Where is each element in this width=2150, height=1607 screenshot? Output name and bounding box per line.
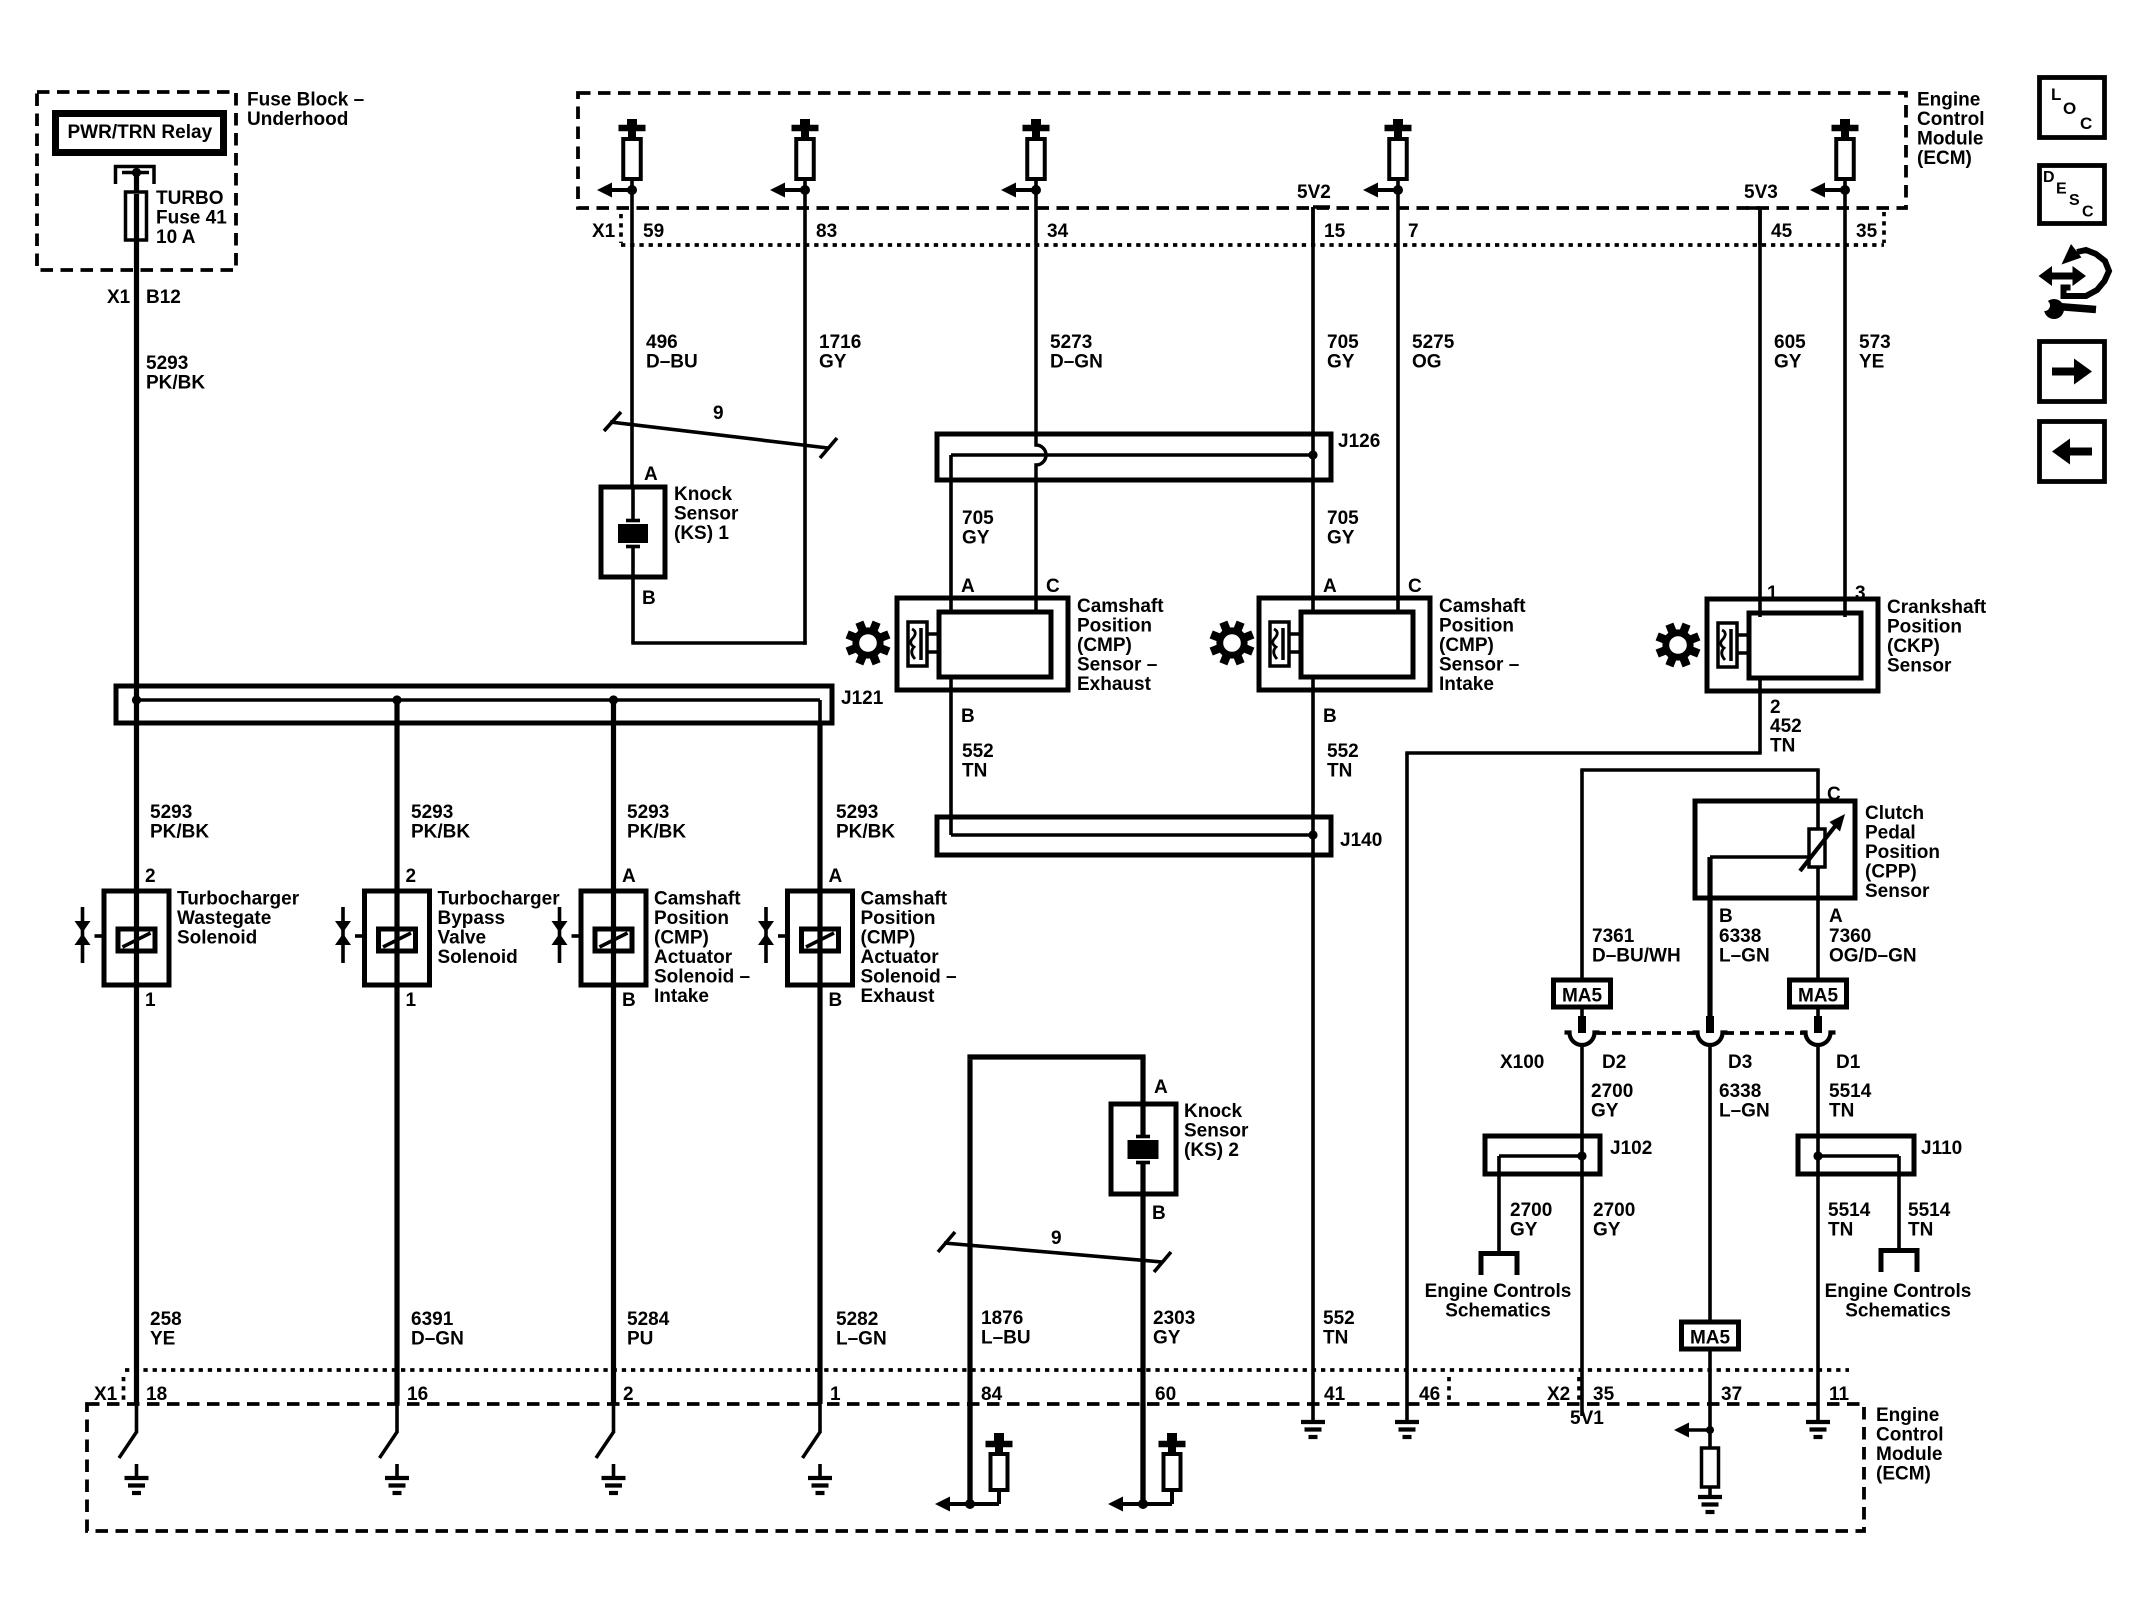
svg-text:Position: Position [1887, 617, 1962, 638]
J110 junction dot [1813, 1151, 1822, 1160]
svg-text:5273: 5273 [1050, 332, 1092, 353]
svg-text:18: 18 [146, 1384, 167, 1405]
wire label 5273 D–GN [1050, 332, 1103, 373]
CMP actuator solenoid exhaust pin A label [829, 866, 843, 887]
svg-text:3: 3 [1855, 583, 1866, 604]
svg-text:PU: PU [627, 1329, 653, 1350]
KS1 pin B label [642, 588, 656, 609]
svg-text:2: 2 [1770, 697, 1781, 718]
wire label 705 GY [1327, 332, 1359, 373]
CMP exhaust pin C label [1046, 576, 1060, 597]
pin number 15 top [1324, 221, 1346, 242]
svg-text:B: B [1152, 1203, 1166, 1224]
X2 label bottom [1547, 1384, 1570, 1405]
svg-text:YE: YE [1859, 352, 1884, 373]
svg-text:Bypass: Bypass [438, 908, 506, 929]
svg-text:Intake: Intake [1439, 674, 1494, 695]
shield symbol 9 at KS2 [938, 1232, 1171, 1272]
svg-text:X1: X1 [94, 1384, 118, 1405]
ECM internal driver pigtail above pin 83 [770, 119, 819, 245]
svg-text:1: 1 [145, 990, 156, 1011]
connector MA5 (7360) [1790, 980, 1847, 1007]
wire 5273 to CMP exhaust C (hop over J126) [1036, 245, 1046, 612]
label J121 [841, 688, 884, 709]
svg-text:Intake: Intake [654, 986, 709, 1007]
svg-text:Position: Position [654, 908, 729, 929]
svg-text:Solenoid: Solenoid [438, 947, 518, 968]
ECM internal load at pin 37 [1674, 1404, 1722, 1512]
label J140 [1340, 830, 1382, 851]
svg-text:J140: J140 [1340, 830, 1382, 851]
pin number 45 top [1771, 221, 1793, 242]
svg-text:10 A: 10 A [156, 227, 196, 248]
svg-text:D2: D2 [1602, 1052, 1626, 1073]
svg-text:X1: X1 [107, 287, 131, 308]
svg-text:J126: J126 [1338, 431, 1380, 452]
splice pack J102 box [1485, 1136, 1600, 1174]
svg-text:B: B [1719, 906, 1733, 927]
svg-text:2700: 2700 [1591, 1081, 1633, 1102]
svg-text:5275: 5275 [1412, 332, 1455, 353]
pin number 35 top [1856, 221, 1878, 242]
J110 internal bus [1818, 1156, 1899, 1174]
CMP actuator solenoid exhaust [758, 891, 853, 985]
label 6338 L-GN [1719, 926, 1770, 967]
svg-text:(CMP): (CMP) [654, 928, 709, 949]
svg-text:41: 41 [1324, 1384, 1346, 1405]
KS1 pin A label [644, 464, 658, 485]
svg-text:Wastegate: Wastegate [177, 908, 271, 929]
gear icon CMP intake [1211, 622, 1253, 664]
icon box DESC [2040, 166, 2105, 224]
ECM bottom connector dotted line [125, 1368, 1849, 1372]
svg-text:(ECM): (ECM) [1917, 148, 1972, 169]
splice pack J121 box [116, 686, 832, 723]
svg-text:Turbocharger: Turbocharger [438, 889, 561, 910]
svg-text:D–GN: D–GN [411, 1329, 464, 1350]
wire label 5275 OG [1412, 332, 1455, 373]
svg-text:Control: Control [1917, 109, 1985, 130]
svg-text:605: 605 [1774, 332, 1806, 353]
svg-text:6338: 6338 [1719, 926, 1761, 947]
svg-text:B: B [1323, 706, 1337, 727]
label J126 [1338, 431, 1380, 452]
svg-text:J102: J102 [1610, 1138, 1652, 1159]
wire 5275 to CMP intake C [1396, 245, 1400, 612]
label 9 (KS1) [713, 403, 724, 424]
wire 1876 L-BU [967, 1057, 1145, 1504]
svg-text:5293: 5293 [146, 353, 188, 374]
MA5 stub right [1816, 1007, 1820, 1033]
label 705 GY intake [1327, 508, 1359, 549]
CPP C wire 573 branch [1580, 770, 1819, 980]
svg-text:452: 452 [1770, 716, 1802, 737]
svg-text:GY: GY [1510, 1220, 1538, 1241]
svg-text:C: C [2082, 204, 2094, 221]
svg-text:6391: 6391 [411, 1309, 454, 1330]
wire 2700 GY D2 to pin 35 [1580, 1045, 1584, 1416]
clutch pedal position CPP sensor box [1695, 801, 1855, 898]
connector MA5 (7361) [1554, 980, 1611, 1007]
crankshaft position CKP sensor B3 [1707, 599, 1878, 691]
pin number 35 bottom [1593, 1384, 1615, 1405]
svg-text:Sensor: Sensor [1184, 1121, 1249, 1142]
label Camshaft Position (CMP) Sensor - Exhaust [1077, 596, 1164, 695]
svg-text:B12: B12 [146, 287, 181, 308]
X2 separator dots bottom [1577, 1377, 1581, 1402]
svg-text:GY: GY [1327, 528, 1355, 549]
label Fuse Block - Underhood [247, 90, 364, 131]
svg-text:5293: 5293 [836, 802, 878, 823]
wire 605 to CKP 1 [1758, 208, 1762, 617]
CMP actuator solenoid exhaust output wire [817, 985, 822, 1404]
J126 junction dot [1308, 450, 1317, 459]
svg-text:TN: TN [1770, 736, 1795, 757]
svg-text:2700: 2700 [1593, 1200, 1635, 1221]
pin number 83 top [816, 221, 837, 242]
KS2 A wire [1140, 1057, 1145, 1138]
svg-text:GY: GY [819, 352, 847, 373]
J126 internal bus [951, 455, 1313, 480]
svg-text:573: 573 [1859, 332, 1891, 353]
svg-text:TN: TN [1829, 1101, 1854, 1122]
svg-text:Knock: Knock [1184, 1101, 1243, 1122]
wire 573 to CKP 3 [1843, 245, 1847, 617]
svg-text:TN: TN [1327, 761, 1352, 782]
label Clutch Pedal Position (CPP) Sensor [1865, 803, 1940, 902]
svg-text:5V3: 5V3 [1744, 182, 1778, 203]
ECM internal switch and ground at pin 2 [596, 1404, 626, 1493]
svg-text:Sensor: Sensor [1865, 881, 1930, 902]
svg-text:D3: D3 [1728, 1052, 1752, 1073]
wire 6338 D3 to MA5 [1708, 1045, 1712, 1322]
pin number 59 top [643, 221, 664, 242]
CKP pin 2 label [1770, 697, 1781, 718]
svg-text:7: 7 [1408, 221, 1419, 242]
ECM internal driver pigtail above pin 59 [597, 119, 646, 245]
svg-text:Knock: Knock [674, 484, 733, 505]
relay output terminal clip [116, 167, 155, 185]
svg-text:5293: 5293 [150, 802, 192, 823]
label 5293 PK/BK at x=411 [411, 802, 470, 843]
svg-text:A: A [961, 576, 975, 597]
svg-text:Sensor: Sensor [1887, 656, 1952, 677]
svg-text:Engine: Engine [1876, 1405, 1939, 1426]
pin label X1 B12 [107, 287, 181, 308]
label 2700 GY (J102 left) [1510, 1200, 1552, 1241]
svg-text:D–BU/WH: D–BU/WH [1592, 946, 1681, 967]
wire 5514 D1 to pin 11 [1816, 1045, 1820, 1404]
svg-text:TN: TN [962, 761, 987, 782]
ECM top connector dotted line [621, 243, 1884, 247]
svg-text:Fuse Block –: Fuse Block – [247, 90, 364, 111]
CMP actuator solenoid intake [552, 891, 647, 985]
wire 5293 branch to solenoid 3 [611, 700, 616, 893]
svg-text:L–GN: L–GN [1719, 1101, 1770, 1122]
pin number 41 bottom [1324, 1384, 1346, 1405]
CMP actuator solenoid intake output wire [611, 985, 616, 1404]
camshaft position CMP sensor intake B2 [1259, 598, 1430, 690]
svg-text:Sensor: Sensor [674, 504, 739, 525]
turbocharger bypass valve solenoid pin 2 label [406, 866, 417, 887]
ECM internal pigtail at pin 84 [935, 1404, 1013, 1512]
svg-text:5514: 5514 [1908, 1200, 1951, 1221]
svg-text:Position: Position [1077, 616, 1152, 637]
svg-text:5284: 5284 [627, 1309, 670, 1330]
pin number 18 bottom [146, 1384, 167, 1405]
svg-text:7361: 7361 [1592, 926, 1635, 947]
CMP intake pin A label [1323, 576, 1337, 597]
CPP potentiometer [1800, 814, 1845, 871]
wire relay to fuse [134, 173, 139, 195]
pin number 7 top [1408, 221, 1419, 242]
CMP exhaust A wire [949, 480, 953, 612]
CMP intake A wire [1311, 455, 1315, 612]
wire label 496 D–BU [646, 332, 698, 373]
wire label 5284 PU [627, 1309, 670, 1350]
svg-text:GY: GY [1593, 1220, 1621, 1241]
wire label 258 YE [150, 1309, 182, 1350]
label Crankshaft Position (CKP) Sensor [1887, 597, 1987, 677]
ECM internal switch and ground at pin 16 [380, 1404, 410, 1493]
pin number 84 bottom [981, 1384, 1003, 1405]
svg-text:Actuator: Actuator [654, 947, 733, 968]
label Engine Controls Schematics left [1425, 1281, 1572, 1322]
svg-text:2700: 2700 [1510, 1200, 1552, 1221]
wire fuse to X1 B12 [134, 240, 139, 270]
svg-text:Sensor –: Sensor – [1439, 655, 1519, 676]
svg-text:Position: Position [861, 908, 936, 929]
svg-text:O: O [2063, 99, 2076, 118]
label 2303 GY [1153, 1308, 1195, 1349]
label 5514 TN (J110 right) [1908, 1200, 1951, 1241]
svg-text:45: 45 [1771, 221, 1793, 242]
label Camshaft Position (CMP) Actuator Solenoid – Exhaust [861, 889, 957, 1008]
svg-text:C: C [1046, 576, 1060, 597]
pin number 34 top [1047, 221, 1069, 242]
label Engine Control Module (ECM) bottom [1876, 1405, 1944, 1485]
ground at pin 46 [1395, 1404, 1419, 1437]
svg-text:552: 552 [1323, 1308, 1355, 1329]
off-page fork right [1881, 1251, 1917, 1273]
svg-text:Valve: Valve [438, 928, 487, 949]
pin number 46 bottom [1419, 1384, 1440, 1405]
wire 1716 horizontal to KS1 B [631, 641, 806, 645]
label D2 [1602, 1052, 1626, 1073]
svg-text:YE: YE [150, 1329, 175, 1350]
wire 5293 branch to solenoid 4 [817, 723, 822, 893]
svg-text:5293: 5293 [627, 802, 669, 823]
svg-text:552: 552 [1327, 741, 1359, 762]
CPP pin C label [1827, 784, 1841, 805]
X100 dashed connector line [1597, 1031, 1803, 1035]
svg-text:258: 258 [150, 1309, 182, 1330]
wire 496 to KS1 [630, 245, 634, 489]
label 452 TN [1770, 716, 1802, 757]
J140 junction dot [1308, 830, 1317, 839]
gear icon CMP exhaust [847, 622, 889, 664]
svg-text:5282: 5282 [836, 1309, 878, 1330]
svg-text:6338: 6338 [1719, 1081, 1761, 1102]
label Engine Controls Schematics right [1825, 1281, 1972, 1322]
camshaft position CMP sensor exhaust B1 [897, 598, 1068, 690]
KS2 B wire 2303 GY [1140, 1161, 1145, 1504]
svg-text:Module: Module [1876, 1444, 1943, 1465]
svg-text:15: 15 [1324, 221, 1346, 242]
fuse block - underhood dashed box [37, 92, 236, 270]
svg-text:496: 496 [646, 332, 678, 353]
ECM internal driver pigtail above pin 34 [1001, 119, 1050, 245]
svg-text:GY: GY [962, 528, 990, 549]
net label 5V2 [1297, 182, 1331, 203]
KS2 piezo element [1128, 1137, 1159, 1163]
svg-text:1876: 1876 [981, 1308, 1023, 1329]
svg-text:MA5: MA5 [1690, 1328, 1731, 1349]
svg-text:(KS) 2: (KS) 2 [1184, 1140, 1239, 1161]
turbocharger wastegate solenoid [75, 891, 170, 985]
label 5293 PK/BK at x=836 [836, 802, 895, 843]
net 5V2 stub at pin 15 [1313, 207, 1330, 245]
J102 junction dot [1577, 1151, 1586, 1160]
turbocharger bypass valve solenoid [335, 891, 430, 985]
svg-text:X1: X1 [592, 221, 616, 242]
svg-text:59: 59 [643, 221, 664, 242]
label 5514 TN (D1) [1829, 1081, 1872, 1122]
wire 5293 through J121 to solenoid 1 [134, 688, 139, 893]
svg-text:L: L [2051, 85, 2061, 104]
ECM internal switch and ground at pin 1 [803, 1404, 833, 1493]
svg-text:46: 46 [1419, 1384, 1440, 1405]
turbocharger wastegate solenoid pin 1 label [145, 990, 156, 1011]
svg-text:1: 1 [406, 990, 417, 1011]
wire label 605 GY [1774, 332, 1806, 373]
svg-text:Engine: Engine [1917, 90, 1980, 111]
svg-text:Engine Controls: Engine Controls [1425, 1281, 1572, 1302]
ECM top dashed box [578, 93, 1906, 208]
svg-text:(ECM): (ECM) [1876, 1464, 1931, 1485]
svg-text:PK/BK: PK/BK [150, 822, 209, 843]
svg-text:D1: D1 [1836, 1052, 1861, 1073]
wire label 573 YE [1859, 332, 1891, 373]
svg-text:OG/D–GN: OG/D–GN [1829, 946, 1917, 967]
ECM internal switch and ground at pin 18 [119, 1404, 149, 1493]
label Knock Sensor (KS) 2 [1184, 1101, 1249, 1161]
svg-text:OG: OG [1412, 352, 1442, 373]
wire 5293 branch to solenoid 2 [394, 700, 399, 893]
X1 label top [592, 221, 616, 242]
label 7361 D-BU/WH [1592, 926, 1681, 967]
icon box arrow left [2040, 422, 2105, 482]
MA5 connector (6338 bottom) [1682, 1322, 1739, 1349]
gear icon CKP [1657, 624, 1699, 666]
svg-text:(CMP): (CMP) [861, 928, 916, 949]
svg-text:MA5: MA5 [1562, 986, 1603, 1007]
splice pack J110 box [1798, 1136, 1914, 1174]
splice pack J140 box [937, 817, 1331, 855]
CKP pin 3 label [1855, 583, 1866, 604]
svg-text:5V1: 5V1 [1570, 1408, 1604, 1429]
label 5293 PK/BK (feed) [146, 353, 205, 394]
knock sensor KS1 box [601, 487, 665, 577]
label PWR/TRN Relay [68, 122, 213, 143]
svg-text:C: C [2080, 114, 2092, 133]
label Engine Control Module (ECM) top [1917, 90, 1985, 170]
svg-text:2: 2 [406, 866, 417, 887]
svg-text:A: A [622, 866, 636, 887]
ECM internal driver pigtail above pin 7 [1363, 119, 1412, 245]
svg-text:Solenoid –: Solenoid – [861, 967, 957, 988]
label 552 TN (pin41) [1323, 1308, 1355, 1349]
ground at pin 41 [1301, 1404, 1325, 1437]
svg-text:Camshaft: Camshaft [861, 889, 948, 910]
svg-text:Actuator: Actuator [861, 947, 940, 968]
svg-text:5V2: 5V2 [1297, 182, 1331, 203]
svg-text:(KS) 1: (KS) 1 [674, 523, 729, 544]
svg-text:A: A [1323, 576, 1337, 597]
wire 5293 fuse block to J121 [134, 270, 139, 688]
wire label 5282 L–GN [836, 1309, 887, 1350]
svg-text:B: B [961, 706, 975, 727]
svg-text:Exhaust: Exhaust [1077, 674, 1152, 695]
svg-text:Exhaust: Exhaust [861, 986, 936, 1007]
CMP exhaust pin B label [961, 706, 975, 727]
svg-text:Crankshaft: Crankshaft [1887, 597, 1987, 618]
svg-text:Schematics: Schematics [1445, 1301, 1551, 1322]
fuse F41 TURBO 10A [126, 192, 147, 240]
svg-text:37: 37 [1721, 1384, 1742, 1405]
wire 1716 vertical [803, 245, 807, 645]
svg-text:5514: 5514 [1828, 1200, 1871, 1221]
label 2700 GY (J102 right) [1593, 1200, 1635, 1241]
wire label 6391 D–GN [411, 1309, 464, 1350]
svg-text:Clutch: Clutch [1865, 803, 1924, 824]
PWR/TRN relay K box [56, 114, 224, 153]
svg-text:Sensor –: Sensor – [1077, 655, 1157, 676]
svg-text:9: 9 [713, 403, 724, 424]
svg-text:2303: 2303 [1153, 1308, 1195, 1329]
svg-text:705: 705 [1327, 332, 1359, 353]
off-page fork left [1481, 1254, 1517, 1276]
label 1876 L-BU [981, 1308, 1031, 1349]
turbocharger bypass valve solenoid pin 1 label [406, 990, 417, 1011]
svg-text:84: 84 [981, 1384, 1003, 1405]
svg-text:J110: J110 [1921, 1138, 1962, 1159]
ECM internal driver pigtail above pin 35 [1810, 119, 1859, 245]
svg-text:(CMP): (CMP) [1439, 635, 1494, 656]
svg-text:2: 2 [145, 866, 156, 887]
net 5V3 stub at pin 45 [1746, 208, 1760, 245]
label TURBO Fuse 41 10 A [156, 188, 227, 248]
svg-text:Position: Position [1865, 842, 1940, 863]
pin number 37 bottom [1721, 1384, 1742, 1405]
wire 6338 MA5 to pin 37 [1708, 1349, 1712, 1404]
svg-text:TN: TN [1828, 1220, 1853, 1241]
svg-text:9: 9 [1051, 1228, 1062, 1249]
svg-text:MA5: MA5 [1798, 986, 1839, 1007]
svg-text:11: 11 [1829, 1384, 1850, 1405]
svg-text:552: 552 [962, 741, 994, 762]
svg-text:X2: X2 [1547, 1384, 1570, 1405]
svg-text:16: 16 [407, 1384, 428, 1405]
label D1 [1836, 1052, 1861, 1073]
svg-text:S: S [2069, 192, 2080, 209]
J121 junction dot 1 [132, 695, 141, 704]
svg-text:C: C [1827, 784, 1841, 805]
label X100 [1500, 1052, 1544, 1073]
knock sensor KS2 box [1111, 1104, 1176, 1194]
svg-text:B: B [642, 588, 656, 609]
svg-text:PWR/TRN Relay: PWR/TRN Relay [68, 122, 213, 143]
